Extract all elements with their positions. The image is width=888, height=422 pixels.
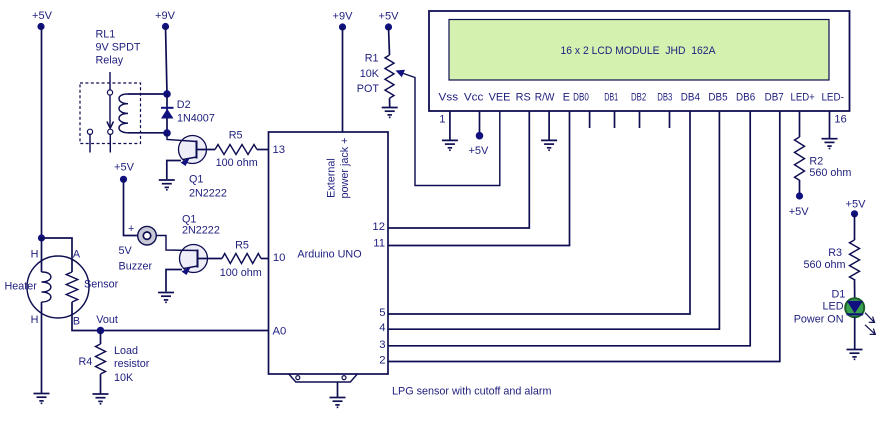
node Vcc +5V [476, 132, 484, 140]
svg-text:Q1: Q1 [189, 174, 203, 186]
arduino mount hole right [342, 376, 346, 380]
ground arduino [330, 398, 346, 408]
Arduino UNO box [269, 132, 389, 374]
svg-text:16: 16 [834, 114, 847, 126]
svg-text:4: 4 [379, 322, 385, 334]
relay switch arm with arrow [107, 95, 114, 128]
transistor Q1 (top) [167, 133, 207, 166]
svg-text:9V SPDT: 9V SPDT [96, 42, 141, 54]
svg-text:2N2222: 2N2222 [182, 225, 220, 237]
svg-text:Vcc: Vcc [464, 92, 484, 104]
svg-text:Vss: Vss [439, 92, 459, 104]
svg-text:DB6: DB6 [736, 92, 755, 104]
svg-text:Heater: Heater [5, 281, 38, 293]
svg-text:resistor: resistor [114, 358, 150, 370]
wire sensor bottom to Vout to A0 [72, 302, 269, 331]
wire DB5 to pin4 [388, 111, 719, 329]
svg-text:DB4: DB4 [681, 92, 700, 104]
svg-text:+: + [128, 223, 134, 235]
svg-text:H: H [31, 249, 39, 261]
potentiometer R1 [385, 55, 394, 98]
node Vout [97, 327, 105, 335]
svg-text:POT: POT [357, 83, 380, 95]
wire junction to sensor top [42, 238, 73, 272]
svg-text:DB3: DB3 [657, 92, 672, 104]
wire buzzer to Q2 collector [156, 236, 197, 251]
wire DB3 stub [669, 111, 671, 128]
node coil bottom junction [163, 129, 171, 137]
ground Q1 emitter [159, 180, 175, 190]
LCD green screen [449, 20, 829, 81]
wire arduino ground stem [337, 382, 339, 397]
wire DB2 stub [639, 111, 641, 128]
diode D2 [161, 108, 174, 119]
ground R/W [541, 140, 557, 150]
node coil top junction [163, 90, 171, 98]
wire +5V to R1 [389, 27, 390, 55]
svg-text:R3: R3 [828, 247, 842, 259]
svg-text:VEE: VEE [489, 92, 511, 104]
supply +5V buzzer [114, 162, 135, 183]
svg-text:R/W: R/W [535, 92, 555, 104]
svg-text:Sensor: Sensor [84, 279, 119, 291]
svg-text:A: A [73, 249, 81, 261]
wire +5V to buzzer [124, 179, 138, 235]
svg-text:power jack +: power jack + [339, 138, 351, 199]
ground R4 [93, 394, 109, 404]
svg-text:RL1: RL1 [96, 29, 116, 41]
LED light arrows [865, 313, 875, 335]
ground heater [34, 394, 50, 404]
heater coil [42, 272, 51, 302]
sensor resistor element [66, 272, 77, 302]
svg-text:+5V: +5V [468, 145, 489, 157]
LED D1 [845, 298, 864, 317]
LCD pin labels [439, 92, 845, 104]
arduino mount hole left [296, 376, 300, 380]
svg-text:1: 1 [439, 114, 445, 126]
wire DB6 to pin3 [388, 111, 750, 346]
svg-text:D2: D2 [177, 99, 191, 111]
supply +5V pot [379, 11, 400, 31]
svg-text:DB7: DB7 [765, 92, 784, 104]
svg-text:R2: R2 [809, 156, 823, 168]
svg-text:E: E [563, 92, 570, 104]
ground Vss [442, 140, 458, 150]
relay dashed enclosure [80, 83, 141, 144]
wire R1 to ground [389, 98, 391, 107]
svg-text:+5V: +5V [32, 10, 53, 22]
wire R2 to +5V [799, 180, 801, 194]
wire coil bottom to rail [128, 132, 167, 134]
wire +5V rail down left side [41, 27, 43, 239]
arduino bottom trapezoid [289, 374, 358, 382]
relay common contact [107, 90, 112, 95]
supply +5V right [846, 199, 867, 218]
svg-text:DB1: DB1 [604, 92, 618, 104]
svg-text:B: B [73, 315, 80, 327]
wire R3 to LED [854, 279, 856, 299]
svg-text:R5: R5 [229, 130, 243, 142]
wire relay common stub top [109, 72, 111, 90]
wire Q2 base to R5 [198, 258, 223, 260]
relay coil [119, 94, 128, 133]
svg-text:External: External [326, 158, 338, 198]
wire R/W stub [548, 111, 550, 140]
svg-text:+9V: +9V [155, 10, 176, 22]
wire Vss stub [449, 111, 451, 140]
svg-text:Arduino UNO: Arduino UNO [297, 249, 361, 261]
svg-text:10K: 10K [114, 372, 134, 384]
svg-text:LPG sensor with cutoff and ala: LPG sensor with cutoff and alarm [392, 386, 551, 398]
svg-text:H: H [31, 314, 39, 326]
LCD module outer box [429, 11, 850, 111]
svg-text:R5: R5 [235, 239, 249, 251]
wire R5 to pin13 [257, 149, 269, 151]
wire coil top to +9V rail [128, 93, 167, 95]
svg-text:10: 10 [273, 252, 286, 264]
svg-text:5V: 5V [119, 245, 133, 257]
svg-text:R1: R1 [365, 53, 379, 65]
wire junction to heater top [41, 238, 43, 272]
gas sensor body circle [27, 256, 89, 318]
svg-text:+9V: +9V [333, 11, 354, 23]
svg-text:DB0: DB0 [573, 92, 589, 104]
wire RS to pin12 [388, 111, 529, 228]
svg-text:R4: R4 [79, 356, 93, 368]
svg-text:Buzzer: Buzzer [119, 261, 153, 273]
svg-text:100 ohm: 100 ohm [216, 157, 258, 169]
ground Q2 emitter [158, 293, 174, 303]
wire diode leads [166, 94, 168, 133]
supply +9V arduino [333, 11, 354, 31]
resistor R3 [850, 240, 860, 280]
svg-text:+5V: +5V [379, 11, 400, 23]
svg-text:1N4007: 1N4007 [177, 113, 215, 125]
relay contact left [87, 129, 92, 134]
svg-text:16 x 2 LCD MODULE JHD 162A: 16 x 2 LCD MODULE JHD 162A [561, 45, 717, 57]
resistor R2 [795, 137, 805, 180]
svg-text:+5V: +5V [789, 206, 810, 218]
wire +9V to power jack [342, 27, 344, 132]
svg-text:Power ON: Power ON [794, 314, 844, 326]
wire DB7 to pin2 [388, 111, 780, 362]
supply +5V top-left [32, 10, 53, 30]
wire Vcc stub [479, 111, 481, 133]
svg-text:RS: RS [516, 92, 531, 104]
svg-text:LED+: LED+ [791, 92, 815, 104]
supply +9V top [155, 10, 176, 30]
node heater/sensor supply junction [38, 234, 45, 241]
wire relay contact stubs [89, 135, 91, 153]
wire pot wiper to VEE [399, 72, 500, 186]
wire DB1 stub [614, 111, 616, 128]
collector wire Q1 [196, 141, 198, 159]
svg-text:DB2: DB2 [631, 92, 646, 104]
label RL1 9V SPDT Relay [96, 29, 141, 67]
wire emitter Q1 to ground [167, 161, 181, 180]
svg-text:LED: LED [822, 301, 843, 313]
svg-text:12: 12 [372, 221, 385, 233]
resistor R5 (top) [215, 145, 257, 155]
relay contact bottom [108, 129, 113, 134]
wire LED to ground [854, 317, 856, 349]
svg-text:Vout: Vout [96, 314, 118, 326]
svg-text:+5V: +5V [114, 162, 135, 174]
wire +9V rail down [166, 27, 168, 95]
svg-text:2: 2 [379, 355, 385, 367]
wire +5V to R3 [854, 214, 856, 240]
wire heater bottom to ground [41, 302, 43, 393]
ground LED [847, 350, 863, 360]
svg-text:13: 13 [273, 144, 286, 156]
svg-text:560 ohm: 560 ohm [803, 259, 845, 271]
svg-text:Relay: Relay [96, 55, 124, 67]
pot wiper arrowhead [396, 70, 406, 78]
transistor Q2 (bottom, labeled Q1) [156, 236, 207, 276]
svg-text:A0: A0 [273, 326, 287, 338]
svg-text:LED-: LED- [821, 92, 844, 104]
svg-text:11: 11 [373, 238, 385, 250]
wire Q1 base to R5 [197, 149, 216, 151]
resistor R4 [96, 344, 106, 374]
svg-text:D1: D1 [831, 289, 845, 301]
wire R4 to ground [100, 374, 102, 394]
svg-text:10K: 10K [360, 68, 380, 80]
wire emitter Q2 to ground [166, 270, 182, 292]
wire R5 to pin10 [261, 258, 269, 260]
svg-text:560 ohm: 560 ohm [809, 167, 851, 179]
wire DB0 stub [589, 111, 591, 128]
svg-text:Load: Load [114, 345, 138, 357]
wire LED+ stub to R2 [799, 111, 801, 137]
wire E to pin11 [388, 111, 570, 246]
svg-text:100 ohm: 100 ohm [220, 267, 262, 279]
svg-text:+5V: +5V [846, 199, 867, 211]
svg-text:2N2222: 2N2222 [189, 188, 227, 200]
wire DB4 to pin5 [388, 111, 690, 314]
svg-text:5: 5 [379, 307, 385, 319]
wire Vout down to R4 [100, 331, 102, 345]
node R2 +5V [796, 192, 803, 199]
buzzer [138, 226, 157, 245]
ground LED- [822, 139, 838, 149]
ground R1 [382, 108, 398, 118]
svg-text:DB5: DB5 [708, 92, 727, 104]
svg-text:3: 3 [379, 339, 385, 351]
resistor R5 (bottom) [222, 254, 261, 264]
wire LED- stub [829, 111, 831, 138]
